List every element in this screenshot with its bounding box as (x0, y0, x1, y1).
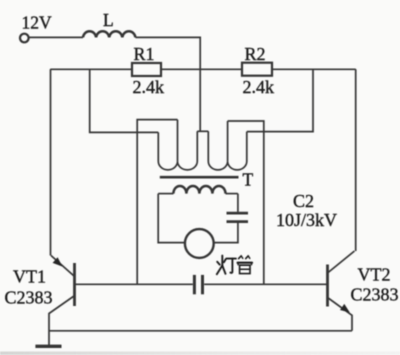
svg-text:VT1: VT1 (13, 267, 46, 287)
svg-text:R1: R1 (134, 44, 155, 64)
svg-text:C2383: C2383 (351, 285, 399, 305)
svg-text:10J/3kV: 10J/3kV (276, 210, 337, 230)
svg-text:2.4k: 2.4k (133, 77, 165, 97)
svg-text:T: T (243, 170, 254, 190)
svg-text:R2: R2 (245, 44, 266, 64)
svg-text:12V: 12V (22, 13, 53, 33)
svg-text:L: L (103, 10, 114, 30)
svg-text:VT2: VT2 (358, 265, 391, 285)
svg-text:C2: C2 (293, 191, 314, 211)
svg-text:2.4k: 2.4k (243, 77, 275, 97)
svg-text:C2383: C2383 (5, 288, 53, 308)
